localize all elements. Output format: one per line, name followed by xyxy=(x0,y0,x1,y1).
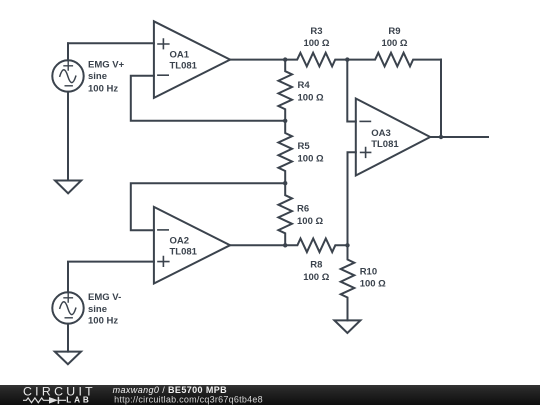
svg-text:100 Hz: 100 Hz xyxy=(88,315,118,326)
logo resistor-diode squiggle xyxy=(23,398,49,403)
svg-text:LAB: LAB xyxy=(66,396,92,405)
svg-text:OA1: OA1 xyxy=(170,49,190,60)
voltage source V2 EMG V- xyxy=(52,292,83,323)
wire V1 top to up xyxy=(67,43,69,60)
wire OA3 plus input xyxy=(348,152,356,245)
V2 sine symbol xyxy=(60,302,76,315)
node dot R3 / R9 / OA3 minus xyxy=(345,57,349,61)
svg-text:R3: R3 xyxy=(310,26,322,37)
V2 plus sign xyxy=(64,294,72,302)
wire V2 bottom to ground xyxy=(67,324,69,352)
svg-text:TL081: TL081 xyxy=(170,61,198,72)
svg-text:sine: sine xyxy=(88,71,107,82)
ground G1 xyxy=(55,181,81,194)
node dot OA1 out / R3 / R4 xyxy=(283,57,287,61)
node dot R8 / R10 / OA3 plus xyxy=(345,243,349,247)
node dot R4 / R5 / OA1 feedback xyxy=(283,119,287,123)
wire V1 bottom to ground xyxy=(67,92,69,181)
OA3 plus input sign xyxy=(361,148,371,158)
op-amp OA2 xyxy=(154,207,230,284)
wire OA2 output xyxy=(230,244,285,246)
node dot R5 / R6 / OA2 feedback xyxy=(283,181,287,185)
V2 minus sign xyxy=(65,317,72,319)
OA1 plus input sign xyxy=(158,39,169,49)
V1 plus sign xyxy=(64,62,72,70)
op-amp OA3 xyxy=(356,99,430,176)
wire OA2 plus input from V2 xyxy=(68,262,154,293)
svg-text:100 Ω: 100 Ω xyxy=(297,216,323,227)
resistor R4 xyxy=(278,60,292,121)
ground G2 xyxy=(55,352,81,365)
svg-text:R4: R4 xyxy=(298,80,311,91)
svg-text:R8: R8 xyxy=(310,259,322,270)
resistor R10 xyxy=(341,245,355,320)
wire OA1 output xyxy=(230,59,285,61)
svg-text:R5: R5 xyxy=(298,141,311,152)
OA3 minus input sign xyxy=(360,120,370,122)
svg-text:sine: sine xyxy=(88,304,107,315)
svg-text:R10: R10 xyxy=(360,266,377,277)
svg-text:100 Ω: 100 Ω xyxy=(298,153,324,164)
wire R9 right down to output node xyxy=(440,60,442,137)
svg-text:R6: R6 xyxy=(297,204,309,215)
svg-text:TL081: TL081 xyxy=(371,139,399,150)
resistor R5 xyxy=(278,121,292,183)
V1 sine symbol xyxy=(60,70,76,83)
node dot OA3 output xyxy=(439,135,443,139)
svg-text:100 Ω: 100 Ω xyxy=(303,272,329,283)
svg-text:EMG V-: EMG V- xyxy=(88,292,121,303)
op-amp OA1 xyxy=(154,21,230,98)
node dot OA2 out / R6 / R8 xyxy=(283,243,287,247)
voltage source V1 EMG V+ xyxy=(52,60,83,91)
svg-text:R9: R9 xyxy=(388,26,400,37)
svg-text:100 Ω: 100 Ω xyxy=(360,279,386,290)
ground G3 xyxy=(334,320,360,333)
wire OA1 minus feedback xyxy=(131,76,285,121)
svg-text:100 Ω: 100 Ω xyxy=(303,38,329,49)
resistor R9 xyxy=(347,53,441,67)
svg-text:100 Hz: 100 Hz xyxy=(88,83,118,94)
OA2 plus input sign xyxy=(158,257,169,267)
wire OA3 output xyxy=(430,136,488,138)
resistor R6 xyxy=(278,183,292,245)
wire OA2 minus feedback xyxy=(131,183,285,230)
wire OA3 minus input xyxy=(347,60,356,122)
svg-text:EMG V+: EMG V+ xyxy=(88,60,125,71)
svg-text:maxwang0 / BE5700 MPB: maxwang0 / BE5700 MPB xyxy=(113,385,228,395)
svg-text:OA3: OA3 xyxy=(371,128,391,139)
svg-text:100 Ω: 100 Ω xyxy=(298,92,324,103)
wire V1 to OA1 + input xyxy=(68,42,154,44)
svg-text:OA2: OA2 xyxy=(170,235,190,246)
resistor R8 xyxy=(285,239,347,253)
svg-text:100 Ω: 100 Ω xyxy=(381,38,407,49)
svg-text:http://circuitlab.com/cq3r67q6: http://circuitlab.com/cq3r67q6tb4e8 xyxy=(114,394,263,404)
V1 minus sign xyxy=(65,85,72,87)
svg-text:TL081: TL081 xyxy=(170,247,198,258)
OA1 minus input sign xyxy=(158,74,168,76)
OA2 minus input sign xyxy=(158,229,168,231)
resistor R3 xyxy=(285,53,347,67)
